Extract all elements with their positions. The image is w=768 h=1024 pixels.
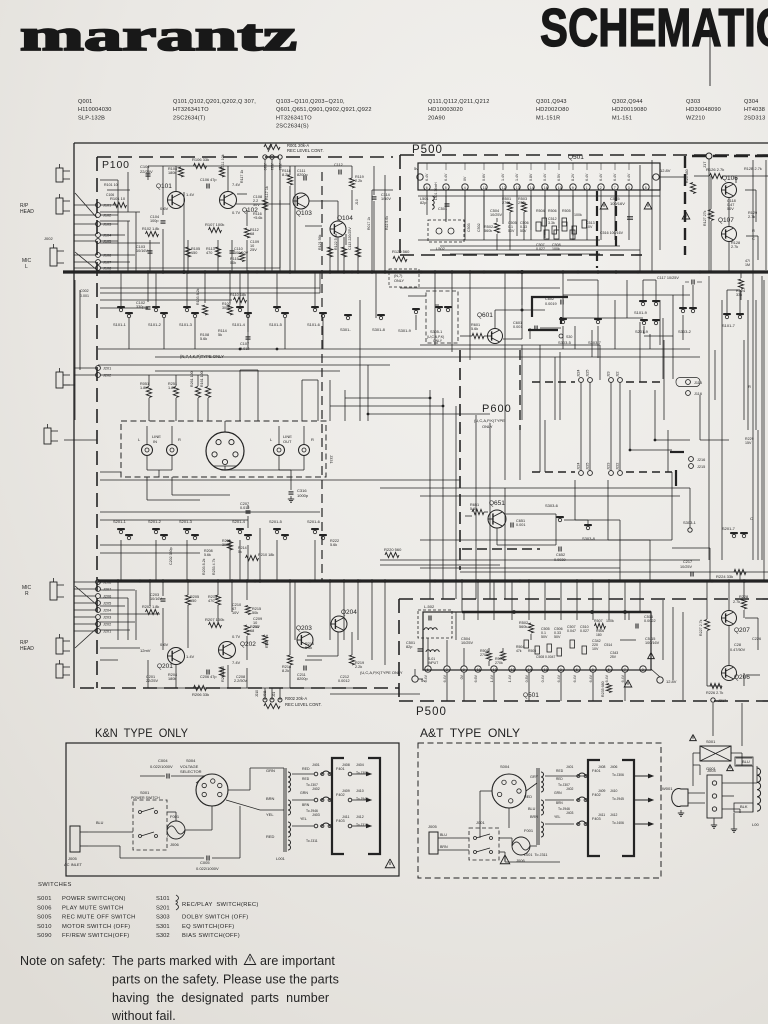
R113 470 resistor bbox=[215, 247, 220, 257]
svg-text:8200p: 8200p bbox=[297, 173, 308, 177]
svg-text:RED: RED bbox=[556, 777, 563, 781]
svg-text:1M: 1M bbox=[745, 263, 750, 267]
svg-text:J202: J202 bbox=[103, 623, 111, 627]
svg-text:R261 100: R261 100 bbox=[190, 371, 194, 387]
R102 1.8k resistor bbox=[146, 231, 159, 236]
svg-text:M1-151: M1-151 bbox=[612, 115, 632, 121]
wires under IC top bbox=[426, 190, 428, 196]
svg-text:P500: P500 bbox=[412, 144, 443, 156]
connector column J101-J108 bbox=[96, 203, 101, 208]
svg-text:0.7V: 0.7V bbox=[232, 210, 241, 215]
svg-text:BRN: BRN bbox=[440, 845, 448, 849]
svg-text:12.8V: 12.8V bbox=[666, 679, 677, 684]
C103 cap bbox=[148, 250, 153, 252]
wires S101 row down bbox=[128, 330, 130, 349]
svg-text:R203 8.2k: R203 8.2k bbox=[202, 558, 206, 575]
svg-text:50V: 50V bbox=[253, 203, 260, 207]
svg-text:J402: J402 bbox=[312, 787, 320, 791]
svg-text:6.4V: 6.4V bbox=[573, 674, 577, 682]
svg-text:J404: J404 bbox=[356, 763, 364, 767]
heavy dashed top right bbox=[692, 155, 768, 157]
svg-text:S001: S001 bbox=[706, 739, 716, 744]
svg-text:J402: J402 bbox=[566, 787, 573, 791]
S301-9 switch left bbox=[414, 310, 417, 313]
svg-text:6.4V: 6.4V bbox=[621, 674, 625, 682]
connector J201 mid bbox=[96, 366, 101, 371]
svg-text:MOTOR SWITCH (OFF): MOTOR SWITCH (OFF) bbox=[62, 924, 130, 930]
svg-text:HD20019080: HD20019080 bbox=[612, 107, 647, 113]
svg-text:L001 To J311: L001 To J311 bbox=[524, 853, 548, 857]
bottom right extra verticals bbox=[662, 600, 664, 660]
svg-text:J225: J225 bbox=[586, 463, 590, 470]
svg-text:R106 33k: R106 33k bbox=[192, 157, 209, 162]
svg-text:J225: J225 bbox=[586, 370, 590, 377]
P500 right heavy dashed bracket bbox=[684, 156, 686, 255]
svg-text:R207 100k: R207 100k bbox=[205, 617, 224, 622]
wires from bus into bottom IC bbox=[461, 581, 463, 612]
svg-text:R117 1k: R117 1k bbox=[265, 186, 269, 200]
svg-text:J202: J202 bbox=[103, 374, 111, 378]
svg-text:SWITCHES: SWITCHES bbox=[38, 882, 72, 888]
svg-text:J408: J408 bbox=[342, 763, 350, 767]
svg-text:22/25V: 22/25V bbox=[140, 169, 153, 174]
svg-text:J103: J103 bbox=[103, 223, 111, 227]
S001 wires bbox=[693, 752, 700, 754]
svg-text:F403: F403 bbox=[336, 819, 345, 823]
svg-text:(U,C,A,P,K)TYPE ONLY: (U,C,A,P,K)TYPE ONLY bbox=[360, 670, 403, 675]
svg-text:180k: 180k bbox=[168, 677, 176, 681]
svg-text:A&T TYPE ONLY: A&T TYPE ONLY bbox=[420, 726, 520, 740]
svg-text:300k: 300k bbox=[222, 306, 230, 310]
svg-text:330p: 330p bbox=[136, 305, 144, 309]
svg-text:BRN: BRN bbox=[266, 796, 275, 801]
svg-text:R161 100: R161 100 bbox=[200, 371, 204, 387]
svg-text:R211 10k: R211 10k bbox=[221, 666, 225, 682]
svg-text:7: 7 bbox=[624, 668, 626, 672]
svg-text:5.6k: 5.6k bbox=[471, 327, 478, 331]
svg-text:S201: S201 bbox=[156, 905, 170, 911]
inner dashed divider bbox=[321, 172, 323, 580]
svg-text:REC/PLAY SWITCH(REC): REC/PLAY SWITCH(REC) bbox=[182, 902, 259, 908]
svg-text:J224: J224 bbox=[577, 463, 581, 470]
small rect components bottom IC bbox=[524, 640, 529, 648]
C101 cap bbox=[146, 173, 151, 175]
jack aux bbox=[56, 372, 63, 388]
svg-text:HD10003020: HD10003020 bbox=[428, 107, 463, 113]
svg-text:100/16V: 100/16V bbox=[610, 201, 625, 206]
svg-text:R224 33k: R224 33k bbox=[716, 574, 733, 579]
C113 220/25V bbox=[355, 247, 360, 257]
svg-text:WZ210: WZ210 bbox=[686, 115, 705, 121]
svg-text:J211: J211 bbox=[263, 690, 267, 697]
A&T F001 fuse bbox=[512, 837, 530, 855]
svg-text:S101-9: S101-9 bbox=[634, 310, 648, 315]
svg-text:1.4V: 1.4V bbox=[186, 654, 195, 659]
svg-text:C652: C652 bbox=[556, 553, 565, 557]
svg-text:0.027: 0.027 bbox=[580, 629, 589, 633]
svg-text:5: 5 bbox=[608, 668, 610, 672]
svg-text:0V: 0V bbox=[463, 176, 467, 181]
svg-text:INPUT: INPUT bbox=[428, 661, 438, 665]
J224 J225 J23 J22 connector row top bbox=[579, 378, 584, 383]
svg-text:J116: J116 bbox=[694, 392, 702, 396]
svg-text:C112: C112 bbox=[334, 163, 343, 167]
svg-text:1.8k: 1.8k bbox=[140, 386, 147, 390]
svg-text:Q301,Q943: Q301,Q943 bbox=[536, 99, 567, 105]
R25 680 resistor right bbox=[690, 183, 695, 194]
title crop mark vertical bbox=[709, 8, 711, 86]
main ground bus bottom bbox=[98, 579, 768, 582]
svg-text:14: 14 bbox=[528, 668, 532, 672]
svg-text:6.4V: 6.4V bbox=[613, 173, 617, 181]
R001 rec level pot bbox=[264, 144, 280, 149]
N7 ONLY dashed box bbox=[389, 269, 419, 287]
svg-text:1000p: 1000p bbox=[297, 493, 309, 498]
dashed segment row top bbox=[532, 381, 575, 383]
top IC internal tick wires bbox=[426, 163, 428, 170]
svg-text:0.022/1000V: 0.022/1000V bbox=[150, 764, 173, 769]
Q101 transistor bbox=[168, 192, 185, 209]
svg-text:6.5V: 6.5V bbox=[557, 173, 561, 181]
svg-text:100k: 100k bbox=[552, 247, 560, 251]
P100 dashed border top bbox=[97, 156, 393, 158]
svg-text:S303-2: S303-2 bbox=[678, 329, 692, 334]
svg-text:S001: S001 bbox=[140, 790, 150, 795]
svg-text:180k: 180k bbox=[168, 171, 176, 175]
svg-text:50V: 50V bbox=[508, 229, 515, 233]
svg-text:R507: R507 bbox=[594, 619, 603, 623]
svg-text:HD2002O80: HD2002O80 bbox=[536, 107, 569, 113]
right coil L001 bbox=[757, 768, 761, 811]
IC Q501 top box bbox=[418, 163, 660, 190]
C651 0.001 cap bbox=[510, 523, 512, 528]
svg-text:0.7V: 0.7V bbox=[232, 634, 241, 639]
C206 47p bottom bbox=[206, 670, 208, 675]
svg-text:J10: J10 bbox=[355, 199, 359, 205]
svg-text:S30: S30 bbox=[566, 335, 572, 339]
svg-text:J208: J208 bbox=[103, 581, 111, 585]
svg-text:0V: 0V bbox=[460, 674, 464, 679]
svg-text:RED: RED bbox=[266, 834, 275, 839]
svg-text:C226: C226 bbox=[752, 637, 761, 641]
Q107 transistor bbox=[722, 227, 737, 242]
svg-text:S303-1: S303-1 bbox=[683, 520, 697, 525]
wires from connector column to P100 bbox=[100, 204, 118, 206]
svg-text:C516 100/16V: C516 100/16V bbox=[600, 231, 624, 235]
svg-text:0.022/1000V: 0.022/1000V bbox=[196, 866, 219, 871]
svg-text:C508 0.0047: C508 0.0047 bbox=[536, 655, 556, 659]
svg-text:2SD313: 2SD313 bbox=[744, 115, 765, 121]
svg-text:C28: C28 bbox=[734, 643, 741, 647]
svg-text:R253 4.7k: R253 4.7k bbox=[212, 558, 216, 575]
svg-text:R121 56k: R121 56k bbox=[318, 234, 322, 250]
P100 extra mesh wires bbox=[100, 211, 140, 213]
A&T transformer wires bbox=[545, 775, 574, 777]
svg-text:DOLBY SWITCH (OFF): DOLBY SWITCH (OFF) bbox=[182, 915, 248, 921]
C316 1000p cap bbox=[290, 477, 292, 490]
svg-text:2: 2 bbox=[446, 668, 448, 672]
svg-text:Q204: Q204 bbox=[341, 609, 357, 616]
svg-text:68: 68 bbox=[250, 232, 254, 236]
A&T box dashed border bbox=[418, 743, 661, 878]
extra mid mesh wires bbox=[329, 380, 331, 421]
P600 dashed bottom bbox=[462, 548, 540, 550]
svg-text:S201-5: S201-5 bbox=[269, 519, 283, 524]
svg-text:5: 5 bbox=[445, 186, 447, 190]
svg-text:16: 16 bbox=[544, 186, 548, 190]
svg-text:HEAD: HEAD bbox=[20, 646, 34, 652]
svg-text:S010: S010 bbox=[37, 924, 52, 930]
svg-text:S303-5: S303-5 bbox=[558, 340, 572, 345]
svg-text:having the designated parts: having the designated parts number bbox=[112, 991, 329, 1005]
svg-text:POWER SWITCH(ON): POWER SWITCH(ON) bbox=[62, 896, 126, 902]
A&T fuse block bracket bbox=[588, 760, 600, 856]
svg-text:C106: C106 bbox=[106, 193, 114, 197]
svg-text:Q304: Q304 bbox=[744, 99, 758, 105]
svg-text:8200p: 8200p bbox=[297, 677, 308, 681]
svg-text:12.8V: 12.8V bbox=[660, 168, 671, 173]
R206 33k bottom resistor bbox=[194, 685, 207, 690]
R211 10k bottom bbox=[219, 667, 224, 677]
svg-text:100/16V: 100/16V bbox=[645, 641, 660, 645]
R209 300k bbox=[227, 540, 232, 550]
svg-text:10: 10 bbox=[558, 186, 562, 190]
S201 extra wires bbox=[100, 544, 230, 546]
IC Q501 bottom box bbox=[423, 612, 651, 670]
svg-text:F001: F001 bbox=[170, 814, 180, 819]
svg-text:C004: C004 bbox=[158, 758, 168, 763]
svg-text:GRN: GRN bbox=[266, 768, 275, 773]
svg-text:14: 14 bbox=[530, 186, 534, 190]
svg-text:2.2k: 2.2k bbox=[355, 665, 362, 669]
right transistor wires bbox=[708, 159, 710, 272]
R126 2.7k resistor bbox=[710, 173, 723, 178]
pin5v circled bottom left bbox=[412, 676, 418, 682]
svg-text:5.6k: 5.6k bbox=[204, 553, 211, 557]
line box jack stems inside bbox=[146, 426, 148, 444]
wires Q103 Q104 bbox=[289, 166, 291, 175]
R220 560 resistor bbox=[385, 552, 399, 557]
svg-text:To J945: To J945 bbox=[612, 797, 624, 801]
svg-text:6.4V: 6.4V bbox=[585, 173, 589, 181]
svg-text:S303-6: S303-6 bbox=[545, 503, 559, 508]
svg-text:Q104: Q104 bbox=[337, 215, 353, 222]
A&T transformer coil bbox=[541, 772, 544, 792]
svg-text:R: R bbox=[25, 591, 29, 597]
svg-text:J21: J21 bbox=[272, 692, 276, 697]
svg-text:12: 12 bbox=[493, 668, 497, 672]
svg-text:C002: C002 bbox=[80, 289, 89, 293]
svg-text:R235 680: R235 680 bbox=[601, 681, 605, 697]
svg-text:Q107: Q107 bbox=[718, 217, 734, 224]
svg-text:P600: P600 bbox=[482, 403, 512, 415]
W001 plug bbox=[672, 789, 688, 807]
svg-text:R110 18k: R110 18k bbox=[230, 293, 246, 297]
C102 330p cap bbox=[146, 306, 151, 308]
svg-text:47k: 47k bbox=[516, 649, 522, 653]
svg-text:R206 33k: R206 33k bbox=[192, 692, 209, 697]
svg-text:0.8V: 0.8V bbox=[529, 173, 533, 181]
jack line2 bbox=[44, 428, 51, 444]
P500 top under-IC extra density bbox=[426, 196, 428, 215]
svg-text:R202 1.8k: R202 1.8k bbox=[142, 605, 159, 609]
J110 J111 J112 connectors bbox=[263, 155, 267, 159]
svg-text:L001: L001 bbox=[276, 856, 286, 861]
Q601 wires bbox=[484, 335, 488, 337]
svg-text:parts on the safety. Please us: parts on the safety. Please use the part… bbox=[112, 973, 339, 987]
svg-text:RED: RED bbox=[524, 795, 532, 799]
svg-text:J006: J006 bbox=[170, 842, 179, 847]
svg-text:1.4V: 1.4V bbox=[186, 192, 195, 197]
svg-text:5k: 5k bbox=[238, 550, 242, 554]
svg-text:50V: 50V bbox=[520, 229, 527, 233]
jack head top2 bbox=[56, 198, 63, 214]
svg-text:7.4V: 7.4V bbox=[232, 660, 241, 665]
connector column J201-J208 bbox=[96, 580, 101, 585]
R118 8.2k resistor bbox=[287, 175, 292, 185]
svg-text:F401: F401 bbox=[336, 767, 345, 771]
R503 270k bottom bbox=[500, 652, 505, 661]
svg-text:C005: C005 bbox=[200, 860, 210, 865]
svg-text:RED: RED bbox=[302, 777, 310, 781]
svg-text:6: 6 bbox=[426, 186, 428, 190]
svg-text:S101-6: S101-6 bbox=[307, 322, 321, 327]
svg-text:F001: F001 bbox=[524, 828, 534, 833]
svg-text:J104: J104 bbox=[103, 234, 111, 238]
R205 150 resistor bbox=[185, 595, 190, 605]
svg-text:Q651: Q651 bbox=[489, 500, 505, 507]
warning triangle 2 bbox=[600, 202, 608, 209]
svg-text:S101-5: S101-5 bbox=[269, 322, 283, 327]
svg-text:R: R bbox=[178, 437, 181, 442]
svg-text:C503: C503 bbox=[467, 223, 471, 232]
schematic outer left border bbox=[73, 143, 75, 688]
svg-text:68: 68 bbox=[250, 629, 254, 633]
S201-9 switch cluster bbox=[642, 321, 645, 324]
svg-text:1.8k: 1.8k bbox=[168, 386, 175, 390]
svg-text:F402: F402 bbox=[336, 793, 345, 797]
svg-text:100p: 100p bbox=[150, 219, 158, 223]
svg-text:J005: J005 bbox=[428, 824, 437, 829]
svg-text:3: 3 bbox=[642, 668, 644, 672]
svg-text:1/50V: 1/50V bbox=[381, 197, 391, 201]
svg-text:0.047: 0.047 bbox=[567, 629, 576, 633]
R124 33k resistor bbox=[738, 279, 743, 289]
svg-text:HD30048090: HD30048090 bbox=[686, 107, 721, 113]
svg-text:100k: 100k bbox=[574, 213, 582, 217]
P600 dashed vert 2 bbox=[519, 350, 521, 430]
svg-text:82p: 82p bbox=[406, 645, 412, 649]
svg-text:10/25V: 10/25V bbox=[680, 565, 693, 569]
svg-text:82p: 82p bbox=[420, 201, 426, 205]
svg-text:J102: J102 bbox=[103, 214, 111, 218]
left mesh wires below bus bbox=[147, 272, 149, 302]
S004 voltage selector bbox=[196, 774, 228, 806]
svg-text:10V: 10V bbox=[592, 647, 599, 651]
svg-text:(U,C,A,P,K)TYPE: (U,C,A,P,K)TYPE bbox=[474, 418, 505, 423]
svg-text:S101-3: S101-3 bbox=[179, 322, 193, 327]
svg-text:1.4V: 1.4V bbox=[490, 674, 494, 682]
R651 5.6k resistor bbox=[472, 509, 484, 514]
svg-text:ONLY: ONLY bbox=[482, 424, 493, 429]
C501 cap bbox=[445, 203, 450, 205]
svg-text:S005: S005 bbox=[37, 915, 52, 921]
svg-text:S004: S004 bbox=[500, 764, 510, 769]
ground right mini bbox=[733, 826, 735, 829]
svg-text:EQ SWITCH(OFF): EQ SWITCH(OFF) bbox=[182, 924, 235, 930]
S301-8 switch bbox=[379, 316, 382, 319]
long horizontal rails mid bbox=[98, 348, 690, 350]
svg-text:6.4V: 6.4V bbox=[605, 674, 609, 682]
R202 1.8k resistor bottom bbox=[146, 609, 159, 614]
L501 coil bbox=[432, 196, 434, 209]
svg-text:R: R bbox=[748, 384, 751, 389]
C107 0.012 cap bbox=[246, 336, 251, 338]
svg-text:S301-9: S301-9 bbox=[398, 328, 412, 333]
R207 100k resistor bottom bbox=[209, 622, 222, 627]
R503 270k resistor bbox=[521, 202, 526, 212]
svg-text:7: 7 bbox=[614, 186, 616, 190]
svg-text:S001: S001 bbox=[37, 896, 52, 902]
svg-text:REC MUTE OFF SWITCH: REC MUTE OFF SWITCH bbox=[62, 915, 136, 921]
svg-text:C206 47p: C206 47p bbox=[200, 675, 216, 679]
svg-text:Q103⌢Q110,Q203⌢Q210,: Q103⌢Q110,Q203⌢Q210, bbox=[276, 99, 345, 105]
jack mic R bbox=[50, 582, 57, 600]
svg-text:R: R bbox=[311, 437, 314, 442]
svg-text:Q111,Q112,Q211,Q212: Q111,Q112,Q211,Q212 bbox=[428, 99, 490, 105]
warning triangle below bottom IC bbox=[624, 680, 632, 687]
R224 33k resistor mid bbox=[734, 569, 746, 574]
R501 270k bottom bbox=[486, 652, 491, 661]
svg-text:0.47/50V: 0.47/50V bbox=[730, 648, 746, 652]
svg-text:YEL: YEL bbox=[554, 815, 561, 819]
S001 power switch dashed box bbox=[133, 800, 167, 850]
svg-text:Q201: Q201 bbox=[157, 663, 173, 670]
svg-text:Q202: Q202 bbox=[240, 641, 256, 648]
svg-text:R107 100k: R107 100k bbox=[205, 222, 224, 227]
svg-text:5k: 5k bbox=[218, 333, 222, 337]
svg-text:0.001: 0.001 bbox=[80, 294, 89, 298]
svg-text:BLU: BLU bbox=[96, 821, 104, 825]
LINE IN jack R bbox=[167, 445, 178, 456]
S303-2 switch cluster bbox=[681, 309, 684, 312]
svg-text:RED: RED bbox=[556, 769, 564, 773]
svg-text:J210: J210 bbox=[255, 690, 259, 697]
svg-text:S101-1: S101-1 bbox=[113, 322, 127, 327]
svg-text:8.2k: 8.2k bbox=[282, 173, 289, 177]
svg-text:S101-2: S101-2 bbox=[148, 322, 162, 327]
svg-text:1.4V: 1.4V bbox=[501, 173, 505, 181]
warning triangle near C515 bbox=[644, 202, 652, 209]
K&N warning triangle bbox=[385, 859, 395, 868]
right edge long vertical wires bbox=[752, 160, 754, 300]
svg-text:HEAD: HEAD bbox=[20, 209, 34, 215]
jack head bottom bbox=[56, 638, 63, 654]
dashed segment row bottom bbox=[532, 471, 575, 473]
svg-text:J216: J216 bbox=[697, 458, 705, 462]
svg-text:IN: IN bbox=[153, 439, 157, 444]
svg-text:180: 180 bbox=[596, 633, 602, 637]
svg-text:YEL: YEL bbox=[266, 812, 274, 817]
svg-text:0.6V: 0.6V bbox=[482, 173, 486, 181]
wires below line box bbox=[146, 477, 148, 500]
svg-text:2.7k: 2.7k bbox=[733, 600, 740, 604]
svg-text:J005: J005 bbox=[68, 856, 77, 861]
LINE IN jack L bbox=[142, 445, 153, 456]
svg-text:J403: J403 bbox=[312, 813, 320, 817]
svg-text:J408: J408 bbox=[598, 765, 605, 769]
L502 dashed box bottom bbox=[418, 610, 452, 638]
